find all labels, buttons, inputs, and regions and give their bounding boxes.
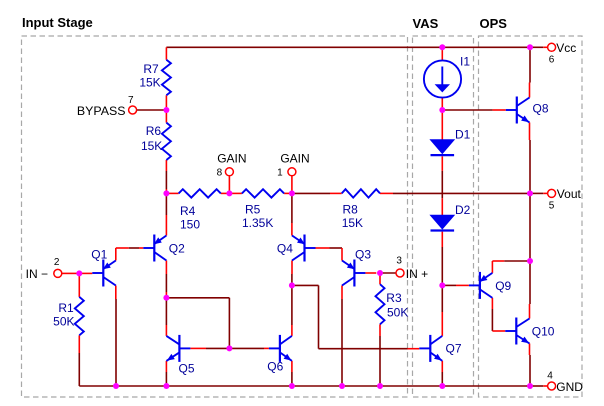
junction top rail / I1 bbox=[439, 44, 445, 50]
wire Q9 collector to Q10 base bbox=[492, 298, 505, 331]
wire Q7 collector up bbox=[441, 285, 443, 336]
OPS boundary box bbox=[479, 36, 583, 397]
junction Vout node bbox=[527, 190, 533, 196]
svg-text:GAIN: GAIN bbox=[217, 152, 246, 166]
wire GAIN1 lead bbox=[291, 176, 293, 194]
wire VAS output to Q9 base bbox=[442, 284, 469, 286]
transistor Q7 bbox=[419, 335, 442, 362]
svg-text:D1: D1 bbox=[455, 128, 471, 142]
svg-text:IN −: IN − bbox=[26, 267, 48, 281]
svg-text:15K: 15K bbox=[141, 139, 162, 153]
wire GAIN8 lead bbox=[228, 176, 230, 194]
wire Vout stub bbox=[530, 192, 548, 194]
svg-text:IN +: IN + bbox=[406, 267, 428, 281]
resistor R6 bbox=[162, 123, 171, 160]
transistor Q2 bbox=[143, 235, 166, 262]
wire R8 run bbox=[292, 192, 530, 194]
svg-text:R3: R3 bbox=[386, 291, 402, 305]
wire Q1 collector down bbox=[115, 286, 117, 387]
junction IN+ / R3 / Q3 base bbox=[377, 270, 383, 276]
wire Q5 collector up bbox=[165, 298, 167, 336]
svg-text:5: 5 bbox=[549, 201, 555, 212]
svg-text:6: 6 bbox=[549, 55, 555, 66]
svg-text:Q8: Q8 bbox=[533, 102, 549, 116]
svg-text:GND: GND bbox=[556, 380, 583, 394]
wire D1 cathode to D2 anode bbox=[441, 156, 443, 215]
wire Q8 emitter down to Vout node bbox=[529, 123, 532, 194]
svg-text:I1: I1 bbox=[460, 55, 470, 69]
resistor R3 bbox=[376, 284, 385, 324]
svg-text:150: 150 bbox=[180, 218, 200, 232]
svg-text:D2: D2 bbox=[455, 203, 471, 217]
svg-text:Q9: Q9 bbox=[495, 279, 511, 293]
wire Q6 collector up bbox=[291, 285, 293, 336]
wire Q2 collector down bbox=[165, 261, 167, 298]
junction top rail / Q8 collector bbox=[527, 44, 533, 50]
junction rail Q3 bbox=[339, 383, 345, 389]
wire Q4 base to Q3 emitter bbox=[316, 248, 343, 261]
transistor Q9 bbox=[469, 272, 493, 299]
svg-text:Vcc: Vcc bbox=[556, 41, 576, 55]
wire D2 cathode down to Q7 collector node bbox=[441, 232, 443, 286]
svg-text:Input Stage: Input Stage bbox=[22, 15, 93, 30]
junction D2 / Q7 collector / Q9 base bbox=[439, 282, 445, 288]
junction rail Q5 bbox=[163, 383, 169, 389]
wire Q3 base to IN+ node bbox=[365, 272, 396, 274]
wire R1 bottom to ground rail bbox=[78, 335, 80, 386]
junction Q5 Q6 base tie bbox=[226, 345, 232, 351]
junction Q4 collector / Q6 collector bbox=[289, 282, 295, 288]
wire R1 top lead bbox=[78, 273, 80, 297]
junction Q2 collector / Q5 collector bbox=[163, 295, 169, 301]
svg-text:R8: R8 bbox=[343, 203, 359, 217]
wire R6 bottom to R4 node bbox=[165, 160, 167, 193]
svg-text:Vout: Vout bbox=[557, 187, 582, 201]
junction rail R3 bbox=[377, 383, 383, 389]
wire Q5 Q6 base link bbox=[190, 347, 269, 349]
wire Q4 collector down bbox=[291, 261, 293, 286]
wire ground rail bbox=[79, 385, 548, 387]
VAS boundary box bbox=[413, 36, 474, 397]
current source I1 bbox=[424, 60, 461, 97]
transistor Q3 bbox=[342, 260, 365, 287]
wire Q1 emitter to Q2 base bbox=[116, 248, 144, 261]
wire Q7 emitter down bbox=[441, 361, 443, 386]
svg-text:8: 8 bbox=[217, 168, 223, 179]
junction rail Q1 bbox=[113, 383, 119, 389]
svg-text:Q7: Q7 bbox=[446, 342, 462, 356]
wire IN- to Q1 base bbox=[62, 272, 93, 274]
wire Vout rail R4 stubs bbox=[166, 192, 229, 194]
terminal IN+ pin 3 bbox=[396, 269, 404, 277]
wire Q6 emitter down bbox=[291, 361, 293, 386]
wire Vout node down to Q9 emitter node bbox=[529, 193, 531, 261]
terminal BYPASS pin 7 bbox=[129, 106, 137, 114]
terminal GAIN pin 8 bbox=[225, 168, 233, 176]
svg-text:R7: R7 bbox=[143, 62, 159, 76]
wire R3 bottom to ground rail bbox=[379, 324, 381, 386]
junction IN- / R1 / Q1 base bbox=[76, 270, 82, 276]
junction R6 / R4 node bbox=[163, 190, 169, 196]
diode D1 bbox=[431, 140, 455, 155]
transistor Q6 bbox=[269, 335, 292, 362]
transistor Q4 bbox=[292, 235, 316, 262]
wire I1 bottom to VAS node bbox=[441, 98, 443, 110]
wire I1 top lead bbox=[441, 47, 443, 60]
svg-text:GAIN: GAIN bbox=[280, 152, 309, 166]
svg-text:50K: 50K bbox=[387, 306, 408, 320]
svg-text:Q5: Q5 bbox=[179, 362, 195, 376]
wire R6 top lead bbox=[165, 110, 167, 123]
wire Q3 collector down bbox=[341, 286, 343, 387]
wire Q9 node down to Q10 collector bbox=[529, 261, 532, 319]
svg-text:50K: 50K bbox=[53, 315, 74, 329]
svg-text:BYPASS: BYPASS bbox=[77, 104, 126, 118]
svg-text:R1: R1 bbox=[58, 301, 74, 315]
wire Q9 emitter link bbox=[492, 261, 530, 273]
wire top Vcc rail bbox=[166, 46, 548, 48]
svg-text:4: 4 bbox=[547, 371, 553, 382]
wire Q4 emitter feed bbox=[291, 193, 293, 235]
svg-text:3: 3 bbox=[396, 256, 402, 267]
svg-text:R6: R6 bbox=[146, 124, 162, 138]
svg-text:Q1: Q1 bbox=[91, 248, 107, 262]
junction I1 / D1 / Q8 base bbox=[439, 107, 445, 113]
wire R7 bottom to BYPASS node bbox=[165, 95, 167, 110]
svg-text:15K: 15K bbox=[139, 76, 160, 90]
wire Q8 collector up bbox=[529, 47, 532, 97]
Input Stage boundary box bbox=[22, 36, 408, 397]
terminal GND pin 4 bbox=[548, 382, 556, 390]
transistor Q8 bbox=[506, 97, 530, 124]
svg-text:R4: R4 bbox=[180, 204, 196, 218]
junction Q9 emitter / output bbox=[527, 258, 533, 264]
svg-text:2: 2 bbox=[54, 257, 60, 268]
resistor R7 bbox=[162, 60, 171, 96]
wire R7 top lead bbox=[165, 47, 167, 60]
wire R5 stubs bbox=[229, 192, 292, 194]
wire Q5 emitter down bbox=[165, 361, 167, 386]
svg-text:R5: R5 bbox=[245, 203, 261, 217]
svg-text:Q4: Q4 bbox=[277, 242, 293, 256]
svg-text:1.35K: 1.35K bbox=[242, 216, 273, 230]
resistor R1 bbox=[75, 297, 84, 335]
svg-text:Q3: Q3 bbox=[355, 248, 371, 262]
wire R3 top lead bbox=[379, 273, 381, 284]
wire D1 top lead bbox=[441, 110, 443, 140]
junction rail GND bbox=[527, 383, 533, 389]
terminal IN- pin 2 bbox=[54, 269, 62, 277]
svg-text:7: 7 bbox=[128, 95, 134, 106]
svg-text:Q6: Q6 bbox=[267, 360, 283, 374]
diode D2 bbox=[431, 215, 455, 230]
junction rail Q7 bbox=[439, 383, 445, 389]
svg-text:OPS: OPS bbox=[480, 16, 508, 31]
wire Q4 collector node to Q7 base link bbox=[292, 285, 419, 348]
wire Q2 collector node to Q5 base link bbox=[166, 298, 229, 349]
svg-text:VAS: VAS bbox=[413, 16, 439, 31]
resistor R4 bbox=[179, 189, 221, 197]
transistor Q5 bbox=[166, 335, 190, 362]
terminal Vout pin 5 bbox=[548, 189, 556, 197]
transistor Q10 bbox=[505, 318, 529, 345]
terminal Vcc pin 6 bbox=[548, 43, 556, 51]
junction GAIN8 / R4 / R5 bbox=[226, 190, 232, 196]
junction GAIN1 / R5 / R8 / Q4 bbox=[289, 190, 295, 196]
svg-text:Q2: Q2 bbox=[169, 242, 185, 256]
wire feedback node down to Q2 emitter bbox=[165, 193, 167, 235]
transistor Q1 bbox=[92, 260, 116, 287]
resistor R5 bbox=[242, 189, 284, 197]
wire BYPASS stub bbox=[136, 109, 166, 111]
svg-text:1: 1 bbox=[277, 168, 283, 179]
svg-text:15K: 15K bbox=[342, 216, 363, 230]
svg-text:Q10: Q10 bbox=[532, 325, 555, 339]
terminal GAIN pin 1 bbox=[288, 168, 296, 176]
resistor R8 bbox=[342, 189, 380, 197]
junction rail Q6 bbox=[289, 383, 295, 389]
wire Q10 emitter down to GND node bbox=[529, 344, 532, 387]
wire VAS node to Q8 base bbox=[442, 109, 506, 111]
junction BYPASS node bbox=[163, 107, 169, 113]
